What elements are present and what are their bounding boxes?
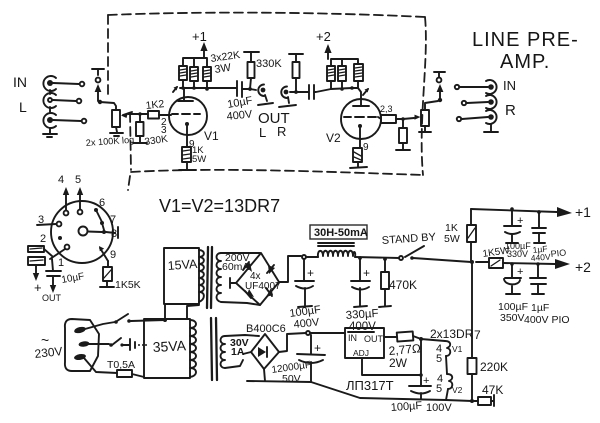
svg-text:V1=V2=13DR7: V1=V2=13DR7 [159,196,280,216]
svg-text:330µF: 330µF [345,308,379,322]
socket pin 3 [37,214,61,226]
capacitor 100uF 400V filter [289,259,322,331]
socket pin 4 [58,174,69,215]
choke 30H-50mA label box [310,225,368,239]
resistor 1K2 grid stopper [145,98,171,118]
socket pin 2 [40,233,62,245]
input RCA jack J4 (right top) [455,80,497,94]
svg-text:3: 3 [161,125,167,136]
svg-text:9: 9 [363,142,369,153]
input RCA jack J5 (right mid) [462,95,497,109]
svg-text:230V: 230V [34,344,63,361]
capacitor 330uF 400V filter [345,256,379,333]
potentiometer P2 (right half) [415,101,439,132]
resistor 330K load (OUT R) [289,54,303,92]
T1 primary winding [199,250,204,302]
mains switch pole B [109,338,147,350]
bottom return rail [247,381,472,401]
transformer T1 15VA primary box [164,248,199,321]
capacitor 10uF (socket area) [42,259,85,303]
node raw DC junction [306,331,310,335]
svg-text:+: + [34,280,42,295]
capacitor 10uF 400V coupling C1 [237,81,250,97]
svg-text:30H-50mA: 30H-50mA [314,227,368,239]
svg-text:+1: +1 [192,29,207,44]
input RCA jack J3 (left bottom) [43,113,86,128]
mains plug 230V [34,319,99,371]
grid resistor of V2 with pins 2,3 [380,104,403,123]
svg-text:470K: 470K [389,278,417,292]
svg-text:R: R [505,102,516,119]
svg-text:1: 1 [58,257,64,269]
heater string of V1 V2 [421,339,463,400]
dashed enclosure box of preamp [108,13,426,190]
svg-text:L: L [19,99,27,115]
mains switch pole A [114,314,165,324]
input RCA jack J1 (left top) [43,76,84,91]
svg-text:5W: 5W [192,154,206,165]
text 2x13DR7 [430,327,481,342]
socket pin 6 [94,197,105,222]
svg-text:47K: 47K [482,383,503,397]
svg-text:ЛП317Т: ЛП317Т [346,378,394,393]
node bottom rail junction [470,399,474,403]
svg-text:+2: +2 [316,29,331,44]
wire bridge2 + to LM317 [279,333,306,352]
svg-text:5W: 5W [444,233,460,245]
svg-text:2: 2 [40,233,46,245]
svg-text:UF4007: UF4007 [245,281,281,292]
svg-text:1K5K: 1K5K [115,279,141,291]
svg-text:400V PIO: 400V PIO [524,314,570,326]
svg-text:35VA: 35VA [152,337,187,355]
svg-text:OUT: OUT [42,293,62,303]
svg-text:+: + [517,266,523,278]
T1 secondary 200V 60mA [217,252,250,302]
wire ADJ loop [362,358,420,375]
output jack OUT L [250,85,273,106]
wire grid to pot R [403,118,414,119]
T1 core [207,247,212,308]
capacitor 1uF 440V PIO (+1 rail) [530,210,566,263]
socket pin 7 [100,214,116,230]
svg-text:100V: 100V [426,402,452,414]
resistor 220K [468,358,509,401]
svg-text:2W: 2W [389,356,408,370]
svg-text:1K2: 1K2 [145,98,165,112]
input RCA jack J2 (left mid) [43,93,81,108]
anode resistors 3x22K of V2 [327,59,363,89]
capacitor 100uF 100V (ADJ) [390,375,452,414]
svg-text:220K: 220K [480,360,508,374]
svg-text:5: 5 [436,383,442,395]
resistor 1K5K (socket pin9) [100,261,141,291]
svg-text:+2: +2 [575,259,591,275]
svg-text:6: 6 [99,197,105,209]
grid leak resistor (R ch) [396,119,410,150]
wire V1 anode line [180,87,236,89]
svg-text:2x13DR: 2x13DR [430,327,474,341]
svg-text:OUT: OUT [364,334,384,344]
socket pin 1 [50,245,69,269]
title LINE PRE-AMP [472,29,579,73]
svg-text:100µF: 100µF [390,400,422,414]
rail +2 arrow [555,259,591,275]
T2 primary winding [190,320,196,377]
node mains junction [163,318,167,322]
svg-text:V1: V1 [204,129,219,143]
svg-text:8: 8 [111,228,117,240]
node choke input [302,255,306,259]
svg-text:+: + [307,266,314,280]
heater caps stack (socket area) [28,246,52,295]
standby switch [381,231,471,262]
svg-text:IN: IN [503,78,516,93]
svg-text:50V: 50V [282,373,301,385]
svg-text:330K: 330K [256,58,282,70]
capacitor 100uF 350V (+2 rail) [498,262,528,324]
resistor 330K grid leak V1 [133,114,147,143]
ground below left jacks [43,90,57,137]
bridge rectifier 4x UF4007 [221,253,281,305]
pin 1 arrow of V2 [363,88,369,95]
wire plug to switches [85,322,115,329]
node out L junction [248,87,252,91]
resistor 330K load (OUT L) [244,52,259,89]
svg-text:V1: V1 [452,344,463,354]
rail +1 [471,204,591,220]
capacitor 1uF 400V PIO (+2 rail) [524,262,570,326]
input RCA jack J6 (right bottom) [457,110,497,124]
node B+ junction [470,260,474,264]
T2 secondary 30V 1A [221,336,249,368]
resistor 2,77R 2W [384,331,421,370]
wire pot wiper to grid [128,113,148,115]
svg-text:2,3: 2,3 [380,104,393,114]
cathode resistor of V2 [350,148,367,168]
supply arrow +1 (V1 anode) [192,29,208,58]
fuse T0,5A [107,359,144,377]
svg-text:4: 4 [58,174,64,186]
transformer T2 35VA primary box [144,319,190,378]
svg-text:V2: V2 [452,385,463,395]
wire selector to pot [100,102,116,110]
svg-text:3W: 3W [214,62,233,76]
choke winding [318,243,355,257]
svg-text:350V: 350V [500,312,525,324]
node heater feed junction [419,337,423,341]
svg-text:7: 7 [110,214,116,226]
svg-text:9: 9 [110,249,116,261]
supply arrow +2 (V2 anode) [316,29,332,59]
resistor 1K 5W dropper (+1) [444,209,476,262]
regulator LM317T [345,328,394,393]
svg-text:1µF: 1µF [531,302,549,314]
T2 core [211,318,217,380]
svg-text:IN: IN [13,74,27,90]
anode resistors 3x22K 3W of V1 [179,58,211,89]
svg-text:330V: 330V [507,249,528,259]
capacitor 100uF 330V (+1 rail) [504,207,531,259]
input selector switch S1 (left) [92,69,104,104]
svg-text:5: 5 [436,353,442,365]
node anode junctions [181,86,185,90]
resistor 470K bleeder [379,257,417,307]
svg-text:L: L [259,125,266,140]
socket pin 5 [75,174,83,214]
wire B+ vertical to heater supply [471,262,473,358]
input selector switch S2 (right) [434,72,445,102]
wire choke to standby [355,257,399,258]
svg-text:440V: 440V [530,252,551,263]
socket pin 9 [99,246,116,261]
resistor 47K [474,383,503,406]
svg-text:LINE PRE-: LINE PRE- [472,29,579,51]
svg-text:5: 5 [75,174,81,186]
cathode resistor 1K 5W of V1 [179,147,196,170]
svg-text:IN: IN [348,333,357,343]
svg-text:1A: 1A [231,346,245,358]
tube socket pinout circle [51,201,118,263]
svg-text:ADJ: ADJ [353,348,369,358]
triode V1 [169,86,207,147]
output jack OUT R [279,87,296,108]
potentiometer P1 2x100K log (left half) [110,110,132,136]
triode V2 [341,99,381,148]
svg-text:7: 7 [474,328,481,342]
svg-text:B400C6: B400C6 [246,323,286,335]
node V2 grid junction [401,117,405,121]
bridge rectifier B400C6 [225,323,286,381]
svg-text:+1: +1 [575,204,591,220]
svg-text:+: + [363,266,370,280]
svg-text:+: + [314,341,321,355]
resistor 1K5W dropper (+2) [476,245,555,268]
wire V2 anode line [331,88,361,98]
node grid junction [138,112,142,116]
svg-text:3: 3 [38,214,44,226]
ground below right jacks [484,124,498,132]
wire OUT R to V2 chain [290,91,308,93]
svg-text:AMP.: AMP. [500,51,550,73]
svg-text:15VA: 15VA [167,257,198,273]
node out R junction [294,90,298,94]
svg-text:V2: V2 [326,131,341,145]
svg-text:PIO: PIO [550,247,566,259]
wire bridge1 + output to choke node [279,256,301,282]
capacitor 12000uF 50V [271,335,325,385]
capacitor coupling C2 (V2) [309,85,331,99]
svg-text:R: R [277,124,286,139]
